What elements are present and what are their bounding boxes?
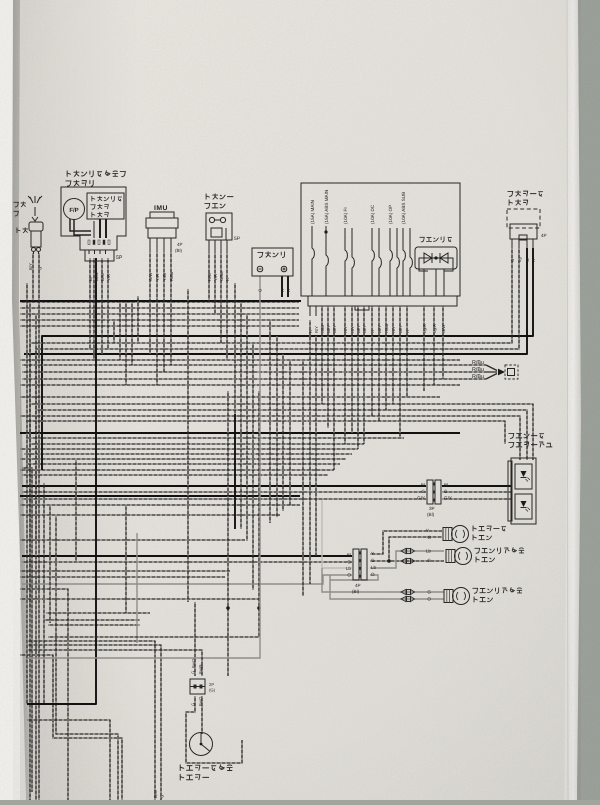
svg-text:R/Bu: R/Bu (472, 360, 484, 366)
svg-text:R/Y: R/Y (343, 326, 348, 333)
svg-text:G/Y: G/Y (417, 496, 425, 501)
svg-text:O: O (371, 572, 375, 577)
svg-text:B/W: B/W (100, 273, 105, 281)
svg-text:W: W (525, 258, 530, 262)
svg-text:4P: 4P (541, 233, 547, 238)
svg-text:B/Y: B/Y (28, 263, 33, 270)
svg-text:(G): (G) (209, 688, 216, 693)
svg-text:4P: 4P (355, 583, 361, 588)
svg-text:Bu/G: Bu/G (191, 658, 196, 668)
svg-text:R/W: R/W (207, 273, 212, 281)
svg-text:G: G (427, 535, 431, 540)
svg-text:G: G (510, 259, 515, 262)
svg-text:G/W: G/W (148, 273, 153, 281)
svg-text:G/Bu: G/Bu (219, 271, 224, 281)
svg-text:(Bl): (Bl) (427, 512, 435, 517)
svg-text:5P: 5P (234, 236, 241, 242)
svg-text:Bl: Bl (421, 483, 425, 488)
svg-text:(10A) FI: (10A) FI (343, 207, 348, 224)
svg-text:Br: Br (88, 276, 93, 281)
svg-text:G: G (191, 671, 196, 674)
svg-text:G: G (444, 489, 448, 494)
svg-text:G/W: G/W (441, 325, 446, 333)
svg-text:G: G (427, 558, 431, 563)
svg-text:R/Bu: R/Bu (384, 323, 389, 333)
svg-text:R/Y: R/Y (391, 326, 396, 333)
svg-text:(15A) MAIN: (15A) MAIN (310, 200, 315, 224)
svg-text:B/W: B/W (153, 790, 158, 798)
svg-text:Bl/W: Bl/W (94, 272, 99, 281)
svg-text:G: G (160, 795, 165, 798)
svg-text:2P: 2P (209, 682, 214, 687)
svg-text:Bl/Y: Bl/Y (398, 325, 403, 333)
svg-text:(Bl): (Bl) (352, 589, 360, 594)
svg-text:Bu/G: Bu/G (198, 696, 203, 706)
svg-text:4P: 4P (177, 242, 183, 247)
svg-text:G: G (191, 703, 196, 706)
svg-text:G: G (258, 289, 263, 292)
svg-text:R/Bu: R/Bu (472, 367, 484, 373)
svg-text:G: G (427, 590, 431, 595)
svg-text:R/Bu: R/Bu (169, 271, 174, 281)
svg-text:Y/Bl: Y/Bl (162, 273, 167, 281)
svg-text:IMU: IMU (154, 205, 168, 212)
svg-text:Lb: Lb (426, 549, 432, 554)
svg-text:R/Bu: R/Bu (472, 374, 484, 380)
svg-text:(Bl): (Bl) (175, 248, 182, 253)
svg-text:G: G (347, 560, 351, 565)
svg-text:5P: 5P (116, 255, 123, 261)
svg-text:(10A) ABS SUB: (10A) ABS SUB (401, 192, 406, 224)
svg-text:O: O (347, 573, 351, 578)
svg-text:Y: Y (426, 528, 429, 533)
svg-text:Bl/Y: Bl/Y (326, 325, 331, 333)
svg-text:Bl/Y: Bl/Y (377, 325, 382, 333)
svg-text:(10A) DC: (10A) DC (370, 204, 375, 224)
svg-text:G: G (38, 267, 43, 270)
svg-text:R: R (286, 289, 291, 292)
svg-text:Bl: Bl (444, 483, 448, 488)
svg-text:Y/R: Y/R (213, 274, 218, 281)
svg-text:Lb: Lb (346, 566, 352, 571)
svg-text:Bl: Bl (347, 553, 351, 558)
svg-text:R: R (370, 330, 375, 333)
svg-text:Y: Y (371, 551, 374, 556)
svg-text:F/P: F/P (69, 207, 78, 214)
svg-text:(15A) ABS MAIN: (15A) ABS MAIN (324, 190, 329, 224)
svg-text:Bl/Y: Bl/Y (332, 325, 337, 333)
svg-text:Lg: Lg (517, 257, 522, 262)
svg-text:G: G (199, 665, 204, 668)
svg-text:R: R (308, 330, 313, 333)
svg-text:Bl/Y: Bl/Y (362, 325, 367, 333)
svg-text:R/Y: R/Y (350, 326, 355, 333)
svg-text:Lg/R: Lg/R (422, 324, 427, 333)
svg-text:Lg/R: Lg/R (432, 324, 437, 333)
svg-text:Bl/Y: Bl/Y (356, 325, 361, 333)
svg-text:G: G (371, 558, 375, 563)
svg-text:Lb: Lb (371, 565, 377, 570)
svg-text:(10A) OP: (10A) OP (388, 205, 393, 224)
svg-text:R: R (531, 259, 536, 262)
svg-text:R/Bl: R/Bl (320, 325, 325, 333)
svg-text:R: R (405, 330, 410, 333)
svg-text:G: G (421, 489, 425, 494)
svg-text:3P: 3P (429, 506, 435, 511)
svg-text:Y/R: Y/R (155, 274, 160, 281)
svg-text:Y/R: Y/R (106, 274, 111, 281)
svg-text:O: O (427, 597, 431, 602)
svg-text:R/Y: R/Y (314, 326, 319, 333)
svg-text:R: R (225, 278, 230, 281)
svg-text:R: R (280, 289, 285, 292)
svg-text:G/Y: G/Y (444, 496, 452, 501)
